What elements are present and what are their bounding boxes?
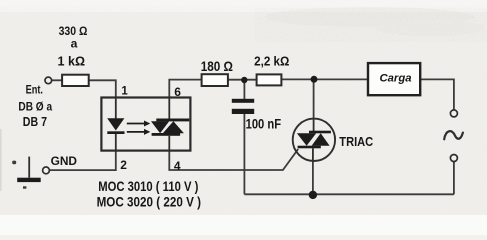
LED cathode lead: [115, 134, 117, 151]
light arrow lower: [127, 131, 145, 133]
node C junction dot on rail: [309, 191, 317, 199]
wire R1 to pin 1: [89, 80, 116, 97]
optocoupler U1 box: [101, 98, 190, 151]
TRIAC top bar: [309, 131, 331, 134]
wire R3 to Carga through node B: [281, 78, 368, 80]
LED cathode bar: [107, 131, 124, 134]
photo-triac top bar: [156, 119, 189, 122]
AC source top terminal: [450, 110, 457, 117]
TRIAC up triangle: [312, 133, 330, 146]
LED triangle: [107, 118, 124, 130]
svg-text:1: 1: [121, 85, 128, 97]
photo-triac pin 4 lead: [168, 136, 170, 151]
svg-text:1 kΩ: 1 kΩ: [58, 54, 86, 68]
wire node B down to TRIAC MT2: [313, 79, 315, 119]
svg-text:2,2 kΩ: 2,2 kΩ: [254, 53, 289, 68]
wire node A down to capacitor: [243, 79, 245, 99]
svg-text:a: a: [71, 37, 78, 51]
wire AC source bottom to rail: [453, 161, 455, 194]
node A junction dot: [241, 77, 247, 83]
terminal GND: [43, 167, 50, 174]
TRIAC bottom bar: [298, 146, 321, 149]
capacitor C1 plate 1: [232, 99, 254, 103]
TRIAC MT1 lead inside: [312, 148, 314, 161]
load box Carga: [368, 63, 420, 95]
wire R2 to R3 through node A: [228, 79, 257, 81]
ground bar: [17, 178, 41, 182]
capacitor C1 plate 2: [232, 109, 254, 114]
wire pin 6 up and to R2: [169, 80, 201, 98]
TRIAC MT2 lead inside: [313, 119, 315, 131]
ground lower mark: [23, 186, 26, 188]
wire capacitor down to bottom rail: [243, 114, 245, 195]
wire TRIAC MT1 to bottom rail: [312, 160, 314, 195]
svg-text:2: 2: [120, 158, 127, 172]
resistor R2 180: [202, 74, 228, 86]
AC source sine symbol: [444, 131, 463, 139]
svg-text:180 Ω: 180 Ω: [201, 59, 234, 74]
svg-text:DB Ø a: DB Ø a: [18, 99, 52, 113]
svg-text:Ent.: Ent.: [26, 82, 43, 96]
wire Ent terminal to R1: [52, 79, 62, 81]
wire pin 4 to TRIAC gate: [169, 149, 298, 170]
svg-text:6: 6: [174, 85, 181, 99]
svg-text:MOC 3010 ( 110 V ): MOC 3010 ( 110 V ): [98, 179, 198, 194]
svg-text:MOC 3020 ( 220 V ): MOC 3020 ( 220 V ): [97, 195, 201, 210]
scan smudge top right: [265, 7, 485, 36]
AC source bottom terminal: [450, 155, 457, 162]
light arrow upper: [127, 123, 145, 125]
photo-triac up triangle: [163, 121, 184, 133]
scan edge line left: [0, 129, 2, 191]
svg-text:DB 7: DB 7: [23, 115, 47, 129]
photo-triac down triangle: [151, 121, 169, 133]
photo-triac bottom bar: [152, 133, 181, 136]
photo-triac pin 6 lead: [168, 98, 170, 120]
wire Carga to AC source: [420, 79, 454, 110]
svg-text:GND: GND: [51, 154, 78, 168]
svg-text:100 nF: 100 nF: [246, 116, 282, 131]
LED anode lead: [115, 98, 117, 120]
bottom rail wire: [244, 193, 454, 195]
svg-text:Carga: Carga: [380, 73, 412, 85]
node B junction dot: [311, 76, 318, 83]
resistor R3 2,2k: [257, 74, 282, 85]
stray scan speck: [12, 161, 16, 165]
svg-text:4: 4: [174, 159, 181, 173]
TRIAC circle: [293, 119, 335, 161]
ground lead: [28, 157, 30, 178]
wire pin 2 to GND terminal: [49, 151, 115, 171]
terminal Ent.: [45, 77, 52, 84]
svg-text:TRIAC: TRIAC: [339, 134, 373, 149]
TRIAC down triangle: [297, 133, 316, 146]
resistor R1 1k: [62, 75, 89, 86]
